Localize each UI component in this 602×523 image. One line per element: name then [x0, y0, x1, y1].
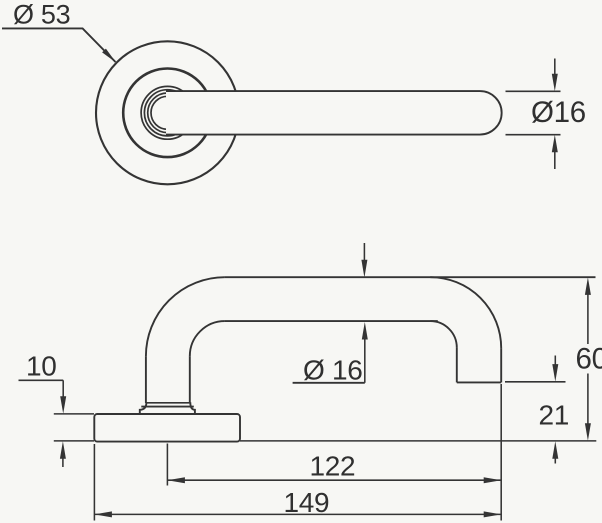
neck ring 1 — [151, 96, 184, 129]
dia16 side view: arrowhead up — [362, 322, 368, 340]
dim line lower segment (dia16 top view) — [554, 152, 556, 170]
dim 122: extension line at handle end — [500, 384, 502, 521]
collar top line — [146, 402, 190, 404]
svg-text:122: 122 — [310, 451, 356, 482]
side view: left bend outer arc — [146, 277, 225, 356]
side view: tip outer edge — [500, 348, 502, 382]
dim 149: extension line at base left — [93, 444, 95, 521]
dim 60: top arrowhead — [585, 277, 591, 295]
leader line for diameter 53 — [2, 28, 116, 62]
dim 122: extension line at rose centre — [166, 444, 168, 486]
neck ring 4 — [141, 86, 194, 139]
collar flare right — [190, 402, 195, 414]
side view: left bend inner arc — [190, 321, 225, 356]
neck ring 3 — [144, 90, 190, 136]
svg-text:149: 149 — [284, 487, 330, 518]
dia16 side view: top arrow shaft — [363, 243, 365, 261]
dim 21: top arrowhead — [552, 364, 558, 382]
dim 10: bottom arrowhead — [60, 441, 66, 459]
dia16 side view: underline leader — [293, 382, 365, 384]
neck ring 2 — [148, 93, 188, 133]
rose inner circle (top view) — [123, 69, 212, 158]
arrowhead down (dia16 top view) — [552, 74, 558, 92]
dim 149: left arrowhead — [94, 511, 112, 517]
lever bar outline (top view) — [166, 91, 502, 135]
side view: grip top line + 60 extension — [225, 276, 596, 278]
side view: tube left edge — [145, 356, 147, 403]
svg-text:Ø 53: Ø 53 — [13, 0, 70, 30]
dim 122: right arrowhead — [484, 477, 502, 483]
dim 60: bottom extension line — [240, 440, 596, 442]
rose outer circle (top view) — [96, 41, 239, 184]
lever bar fill (top view) — [166, 91, 502, 135]
svg-text:60: 60 — [576, 343, 602, 376]
dia16 side view: vertical leader — [364, 339, 366, 383]
dia16 side view: top arrowhead down — [361, 260, 367, 278]
dim 149: dim line — [94, 513, 501, 515]
arrowhead up (dia16 top view) — [552, 135, 558, 153]
dim 60: bottom arrowhead — [585, 423, 591, 441]
svg-text:Ø 16: Ø 16 — [303, 355, 363, 386]
dim 60: dim line upper part — [587, 294, 589, 345]
extension line bottom (dia16 top view) — [506, 134, 561, 136]
collar flare left — [140, 402, 147, 414]
svg-text:10: 10 — [26, 351, 57, 382]
dim 21: bottom arrowhead — [552, 441, 558, 459]
dim 21: bottom arrow shaft — [554, 458, 556, 464]
side view: tube right edge — [189, 356, 191, 403]
dim 21: top arrow shaft — [554, 356, 556, 366]
dim 21: extension from tip bottom — [505, 381, 566, 383]
rose base plate (side view) — [94, 414, 240, 442]
dim 122: dim line — [167, 479, 501, 481]
side view: right bend inner arc — [430, 321, 457, 348]
side view: right bend outer arc — [430, 277, 501, 348]
dim 10: top arrow shaft — [62, 380, 64, 397]
dim 10: bottom arrow shaft — [62, 458, 64, 467]
dim 60: dim line lower part — [587, 374, 589, 425]
dim 149: right arrowhead — [484, 511, 502, 517]
svg-text:Ø16: Ø16 — [531, 96, 586, 129]
side view: grip bottom line — [225, 320, 438, 322]
dim 10: top arrowhead — [60, 396, 66, 414]
dim line upper segment (dia16 top view) — [554, 59, 556, 75]
extension line top (dia16 top view) — [506, 90, 561, 92]
arrowhead of 53 leader — [102, 49, 116, 63]
side view: tip inner edge — [456, 348, 458, 383]
dim 10: bottom extension line — [54, 440, 94, 442]
side view: tip bottom end — [457, 381, 501, 383]
svg-text:21: 21 — [539, 400, 570, 431]
dim 10: top extension line — [54, 413, 94, 415]
collar mid line — [141, 406, 194, 408]
dim 122: left arrowhead — [167, 477, 185, 483]
dim 10: leader under text — [19, 379, 64, 381]
